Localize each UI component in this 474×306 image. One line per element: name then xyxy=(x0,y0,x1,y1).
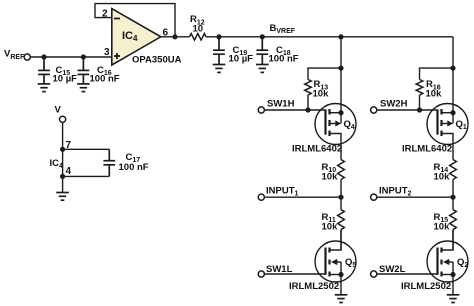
node junction C15 xyxy=(41,54,46,59)
svg-text:Q2: Q2 xyxy=(457,257,468,269)
node junction R13 branch xyxy=(338,66,343,71)
svg-text:10k: 10k xyxy=(313,89,330,100)
node INPUT2 junction xyxy=(450,195,455,200)
wire VREF to op-amp pin 3 xyxy=(30,56,111,58)
op-amp U IC4 triangle xyxy=(112,9,161,65)
resistor R12 xyxy=(190,34,207,41)
svg-text:10k: 10k xyxy=(426,89,443,100)
wire R16 branch xyxy=(420,68,454,79)
svg-text:OPA350UA: OPA350UA xyxy=(132,55,182,66)
ground C15 xyxy=(38,84,51,92)
capacitor C17 xyxy=(103,149,115,176)
svg-text:INPUT2: INPUT2 xyxy=(379,185,412,197)
wire R13 to SW1H xyxy=(307,95,309,110)
wire pin 7 to C17 xyxy=(63,148,110,150)
wire INPUT1 xyxy=(265,196,342,198)
node pin 7 junction xyxy=(60,147,65,152)
resistor R11 xyxy=(338,210,345,230)
node pin 4 junction xyxy=(60,174,65,179)
ground C19 xyxy=(213,65,226,73)
wire R15 to Q2 drain xyxy=(452,230,454,251)
transistor Q2 IRLML2502 xyxy=(427,230,468,295)
svg-text:100 nF: 100 nF xyxy=(119,162,149,173)
wire SW2L to Q2 gate xyxy=(377,273,438,275)
transistor Q1 IRLML6402 xyxy=(427,104,468,145)
ground IC4 xyxy=(56,193,69,201)
op-amp plus sign pin 3 xyxy=(114,53,120,59)
wire left rail BVREF down to Q4 xyxy=(340,37,342,113)
wire INPUT2 xyxy=(377,196,453,198)
resistor R10 xyxy=(338,160,345,180)
wire R16 to SW2H xyxy=(419,95,421,110)
svg-text:SW1H: SW1H xyxy=(267,99,295,110)
svg-text:IRLML2502: IRLML2502 xyxy=(401,281,451,292)
node output junction xyxy=(172,34,177,39)
wire right rail from BVREF corner down xyxy=(452,37,454,113)
wire R13 branch xyxy=(308,68,341,79)
node SW2H terminal xyxy=(371,107,377,113)
transistor Q5 IRLML2502 xyxy=(315,230,356,295)
node junction R13-SW1H xyxy=(305,107,310,112)
svg-text:10 µF: 10 µF xyxy=(229,54,254,65)
wire R12 to BVREF rail xyxy=(206,36,453,38)
capacitor C18 xyxy=(256,37,268,65)
node junction C19 xyxy=(216,34,221,39)
svg-text:IRLML6402: IRLML6402 xyxy=(292,144,342,155)
svg-text:IC4: IC4 xyxy=(50,158,64,170)
transistor Q4 IRLML6402 xyxy=(315,104,356,145)
wire SW1H to Q4 gate xyxy=(265,109,326,111)
op-amp minus sign pin 2 xyxy=(114,18,120,20)
svg-text:Q4: Q4 xyxy=(344,119,355,131)
node junction R16 branch xyxy=(450,66,455,71)
wire R10 to INPUT1 node xyxy=(340,180,342,210)
svg-text:INPUT1: INPUT1 xyxy=(266,185,299,197)
svg-text:10k: 10k xyxy=(322,221,339,232)
node V power terminal xyxy=(60,116,66,122)
wire R14 to INPUT2 node xyxy=(452,180,454,210)
node INPUT1 terminal xyxy=(258,194,264,200)
svg-text:10k: 10k xyxy=(434,171,451,182)
node INPUT1 junction xyxy=(338,195,343,200)
wire feedback loop output to pin 2 xyxy=(95,4,175,37)
svg-text:VREF: VREF xyxy=(4,49,25,61)
wire SW2H to Q1 gate xyxy=(377,109,438,111)
svg-text:3: 3 xyxy=(104,47,110,58)
wire V to IC4 pins xyxy=(62,123,64,193)
wire Q1 drain to R14 xyxy=(452,144,454,160)
resistor R15 xyxy=(450,210,457,230)
resistor R16 xyxy=(416,80,423,96)
node junction C16 xyxy=(81,54,86,59)
node junction C18 xyxy=(260,34,265,39)
capacitor C19 xyxy=(213,37,225,65)
ground Q5 source xyxy=(335,295,348,303)
svg-text:4: 4 xyxy=(66,166,72,177)
svg-text:IRLML2502: IRLML2502 xyxy=(289,281,339,292)
ground C16 xyxy=(77,84,90,92)
resistor R13 xyxy=(305,80,312,96)
ground C18 xyxy=(256,65,269,73)
svg-text:10k: 10k xyxy=(434,221,451,232)
svg-text:10 µF: 10 µF xyxy=(53,74,78,85)
wire output pin 6 xyxy=(161,36,190,38)
svg-text:10: 10 xyxy=(193,24,204,35)
resistor R14 xyxy=(450,160,457,180)
svg-text:V: V xyxy=(55,105,62,116)
svg-text:100 nF: 100 nF xyxy=(269,54,299,65)
node SW1L terminal xyxy=(258,271,264,277)
node SW1H terminal xyxy=(258,107,264,113)
node INPUT2 terminal xyxy=(371,194,377,200)
svg-text:IRLML6402: IRLML6402 xyxy=(402,144,452,155)
svg-text:Q5: Q5 xyxy=(345,257,356,269)
node SW2L terminal xyxy=(371,271,377,277)
wire R11 to Q5 drain xyxy=(340,230,342,251)
svg-text:SW2H: SW2H xyxy=(380,99,408,110)
ground Q2 source xyxy=(447,295,460,303)
node junction left rail xyxy=(338,34,343,39)
svg-text:10k: 10k xyxy=(322,171,339,182)
svg-text:100 nF: 100 nF xyxy=(90,74,120,85)
node junction R16-SW2H xyxy=(417,107,422,112)
svg-text:Q1: Q1 xyxy=(456,119,467,131)
capacitor C15 xyxy=(38,57,50,84)
capacitor C16 xyxy=(78,57,90,84)
node VREF terminal xyxy=(24,54,30,60)
svg-text:BVREF: BVREF xyxy=(270,23,296,35)
wire Q4 drain to R10 xyxy=(340,144,342,160)
wire SW1L to Q5 gate xyxy=(265,273,326,275)
wire pin 4 to C17 xyxy=(63,175,110,177)
